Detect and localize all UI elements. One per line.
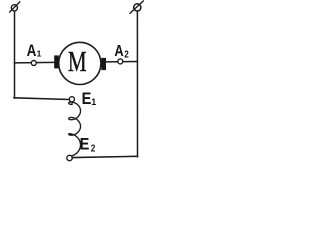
svg-text:M: M	[68, 46, 87, 78]
svg-text:2: 2	[91, 143, 96, 154]
svg-text:1: 1	[91, 97, 96, 107]
svg-text:E: E	[82, 90, 92, 108]
svg-text:E: E	[80, 136, 90, 154]
svg-text:A: A	[27, 42, 37, 61]
svg-text:2: 2	[124, 49, 129, 60]
svg-text:1: 1	[37, 49, 42, 59]
svg-text:A: A	[114, 43, 123, 60]
